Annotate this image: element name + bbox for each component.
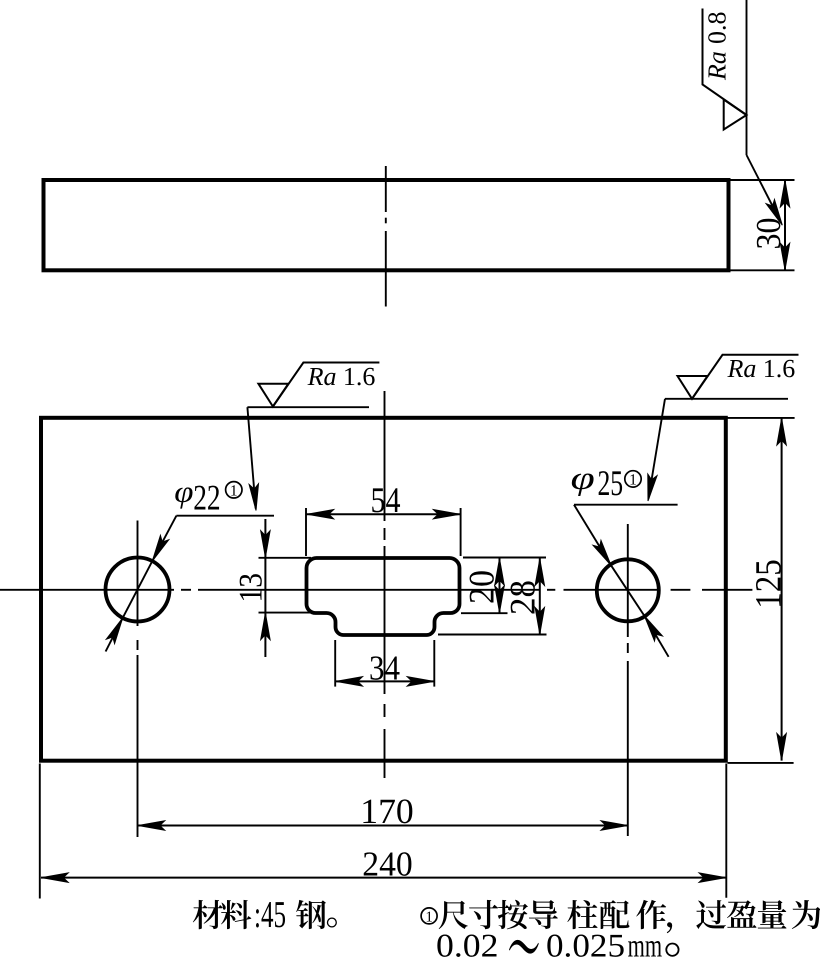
svg-text:Ra: Ra	[307, 362, 337, 391]
dimension 125 extension lines	[728, 417, 795, 419]
svg-text:13: 13	[234, 573, 270, 603]
svg-text:0.025: 0.025	[546, 929, 625, 962]
top view vertical centerline	[385, 166, 387, 212]
leader arrowhead	[766, 199, 786, 227]
dimension 13 extension lines	[259, 557, 312, 559]
horizontal centerline through holes	[0, 589, 174, 591]
dimension 13 dimension line	[264, 519, 266, 657]
svg-text:mm: mm	[628, 929, 663, 962]
dimension 240 extension lines	[39, 764, 41, 899]
top view plate outline	[44, 180, 729, 270]
svg-text:1: 1	[230, 482, 238, 499]
svg-text:φ: φ	[174, 474, 193, 509]
svg-text:25: 25	[597, 463, 623, 503]
svg-text:1: 1	[629, 471, 637, 488]
label phi22 circled-1	[226, 482, 242, 498]
svg-text:125: 125	[749, 559, 790, 609]
note text: circled-1 footnote line 1	[421, 900, 820, 933]
svg-text:240: 240	[362, 845, 413, 884]
main view plate outline	[41, 418, 726, 761]
svg-text:Ra: Ra	[727, 354, 757, 383]
svg-text:φ: φ	[571, 461, 595, 497]
note text: material 45 steel	[193, 894, 337, 936]
surface finish symbol Ra 0.8	[703, 9, 747, 130]
T-slot cutout outline	[307, 558, 460, 635]
dimension 34 dimension line	[335, 680, 434, 682]
dimension 54 dimension line	[306, 513, 460, 515]
slot vertical centerline	[384, 391, 386, 521]
surface finish symbol Ra 1.6 left, shelf and leader	[247, 406, 369, 408]
label phi25 circled-1	[625, 471, 641, 487]
svg-text:Ra: Ra	[703, 51, 732, 81]
svg-text:0.02: 0.02	[436, 929, 499, 962]
dimension 170 dimension line	[138, 825, 629, 827]
dimension 240 dimension line	[41, 877, 726, 879]
left guide hole circle (phi 22)	[106, 558, 170, 622]
dimension 125 dimension line	[781, 418, 783, 761]
note text: footnote line 2 tolerance values	[436, 929, 680, 962]
svg-text:0.8: 0.8	[703, 12, 732, 45]
svg-text:1.6: 1.6	[763, 354, 796, 383]
svg-text:20: 20	[461, 570, 501, 604]
dimension 34 extension lines	[334, 640, 336, 687]
label phi25 leader and shelf	[574, 504, 678, 506]
svg-text:1.6: 1.6	[343, 362, 376, 391]
surface finish symbol Ra 1.6 right, shelf and leader	[665, 398, 788, 400]
left hole vertical centerline	[137, 521, 139, 627]
svg-text:30: 30	[749, 218, 788, 250]
dimension 20 dimension line	[499, 558, 501, 613]
right hole vertical centerline	[627, 524, 629, 637]
surface finish symbol Ra 0.8 leader line	[746, 0, 748, 155]
right guide hole circle (phi 25)	[597, 559, 659, 621]
svg-text:28: 28	[502, 580, 542, 615]
svg-text:170: 170	[360, 791, 414, 831]
svg-text:54: 54	[371, 480, 401, 520]
dimension 30 dimension line	[784, 180, 786, 270]
dimension 28 extension line	[438, 634, 547, 636]
svg-text:34: 34	[369, 648, 400, 687]
dimension 28 dimension line	[539, 558, 541, 634]
dimension 54 extension lines	[305, 508, 307, 556]
svg-text:1: 1	[425, 910, 433, 926]
dimension 20 extension lines	[463, 557, 546, 559]
dimension 30 extension lines	[731, 179, 795, 181]
svg-text::45: :45	[254, 894, 286, 936]
label phi22 leader and shelf	[176, 515, 274, 517]
svg-text:22: 22	[193, 478, 220, 518]
